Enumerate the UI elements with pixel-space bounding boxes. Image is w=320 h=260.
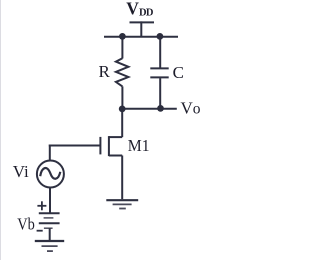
node dot top right xyxy=(157,33,164,40)
node dot top left xyxy=(119,33,126,40)
wire capacitor bottom lead xyxy=(159,78,161,109)
wire VDD stub xyxy=(140,21,142,36)
battery Vb short plate 2 xyxy=(44,227,53,229)
node dot bottom left xyxy=(119,106,126,113)
svg-text:M1: M1 xyxy=(128,136,150,155)
battery Vb long plate 2 xyxy=(39,222,60,224)
svg-text:Vb: Vb xyxy=(17,214,35,233)
transistor M1 source horizontal xyxy=(109,155,122,157)
wire drain lead xyxy=(121,109,123,137)
ground (source) bar 3 xyxy=(119,208,126,210)
ground (battery) bar 3 xyxy=(47,250,53,252)
minus sign xyxy=(37,230,43,232)
plus sign xyxy=(37,201,46,210)
ground (source) bar 2 xyxy=(113,203,132,205)
resistor R zigzag xyxy=(116,58,128,86)
wire source lead down xyxy=(121,156,123,200)
wire output rail to Vo xyxy=(122,108,177,110)
capacitor C bottom plate xyxy=(150,76,168,78)
wire source to battery xyxy=(49,188,51,214)
transistor M1 channel bar xyxy=(108,136,110,156)
power VDD T-bar xyxy=(130,21,155,23)
transistor M1 drain horizontal xyxy=(109,136,122,138)
wire resistor top lead xyxy=(121,37,123,59)
source Vi sine wave xyxy=(40,168,60,179)
node dot bottom right (Vo) xyxy=(157,105,164,112)
wire top rail xyxy=(104,36,178,38)
wire resistor bottom lead xyxy=(121,86,123,108)
wire capacitor top lead xyxy=(159,37,161,68)
svg-text:Vi: Vi xyxy=(13,162,29,181)
svg-text:C: C xyxy=(173,63,184,82)
source Vi circle xyxy=(37,161,64,188)
ground (source) bar 1 xyxy=(106,199,138,201)
wire input corner down to source xyxy=(49,145,51,162)
battery Vb short plate 1 xyxy=(44,217,54,219)
wire battery to ground xyxy=(49,228,51,241)
battery Vb long plate 1 xyxy=(39,212,60,214)
ground (battery) bar 1 xyxy=(35,240,64,242)
edge artifact line xyxy=(0,0,2,260)
wire gate lead xyxy=(49,145,101,147)
svg-text:Vo: Vo xyxy=(181,98,201,117)
capacitor C top plate xyxy=(150,67,168,69)
ground (battery) bar 2 xyxy=(42,245,58,247)
svg-text:VDD: VDD xyxy=(126,0,154,19)
transistor M1 gate bar xyxy=(99,137,101,155)
svg-text:R: R xyxy=(99,62,111,81)
